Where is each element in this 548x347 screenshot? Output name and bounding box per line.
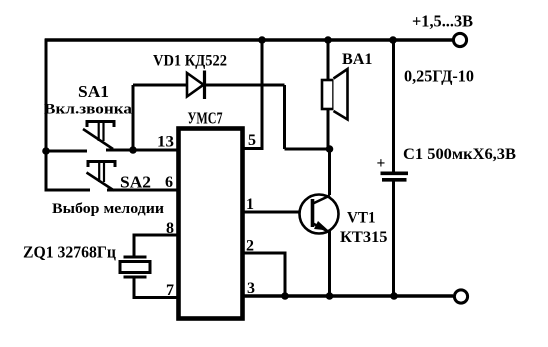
svg-text:13: 13 (157, 134, 174, 151)
svg-text:VD1 КД522: VD1 КД522 (153, 53, 227, 70)
wire SA2 left terminal (46, 189, 90, 192)
wire pin 2 (243, 253, 285, 296)
wire SA1 to pin 13 (106, 149, 178, 152)
switch SA1 (83, 122, 114, 150)
svg-text:7: 7 (166, 282, 174, 299)
svg-text:5: 5 (248, 132, 256, 149)
IC U1 UMS7 body (179, 129, 243, 319)
wire speaker top (327, 40, 330, 80)
svg-text:Вкл.звонка: Вкл.звонка (44, 102, 133, 118)
node left rail / SA1 (42, 147, 50, 155)
speaker BA1 (322, 69, 348, 120)
wire emitter drop (328, 231, 331, 296)
wire VD1 branch down (283, 85, 286, 149)
crystal ZQ1 (120, 257, 150, 277)
svg-text:8: 8 (166, 220, 174, 237)
svg-text:3: 3 (247, 280, 255, 297)
wire left rail (45, 39, 48, 192)
svg-text:ZQ1 32768Гц: ZQ1 32768Гц (23, 243, 116, 262)
wire SA1 left terminal (46, 150, 87, 153)
node SA1 / VD1 anode (129, 146, 137, 154)
svg-text:C1 500мкX6,3В: C1 500мкX6,3В (403, 146, 516, 163)
transistor Q1 VT1 (300, 195, 339, 234)
diode VD1 (187, 71, 205, 100)
wire C1 top (392, 40, 395, 173)
wire speaker bottom (327, 109, 330, 149)
svg-text:VT1: VT1 (347, 210, 376, 227)
node top rail / speaker (324, 36, 332, 44)
wire bottom rail (243, 294, 453, 297)
svg-text:SA2: SA2 (120, 173, 151, 192)
wire VD1 anode riser (132, 85, 135, 150)
node bottom rail / C1 (390, 292, 398, 300)
node bottom rail / pin2 (281, 292, 289, 300)
wire pin 7 (134, 277, 178, 298)
svg-text:SA1: SA1 (78, 82, 109, 101)
svg-text:6: 6 (165, 174, 173, 191)
wire pin 8 (134, 235, 178, 257)
svg-text:0,25ГД-10: 0,25ГД-10 (404, 67, 474, 86)
node bottom rail / emitter (326, 292, 334, 300)
terminal +1,5...3V (453, 33, 466, 46)
wire VD1 anode horizontal (133, 84, 187, 87)
svg-text:КТ315: КТ315 (340, 229, 388, 246)
svg-text:2: 2 (246, 238, 254, 255)
svg-text:+: + (377, 155, 386, 172)
wire VD1 cathode horizontal (204, 84, 285, 87)
wire pin 5 (243, 40, 262, 149)
svg-text:УМС7: УМС7 (188, 109, 223, 128)
switch SA2 (87, 162, 116, 191)
wire top supply rail (45, 38, 453, 41)
node top rail / C1 (389, 36, 397, 44)
wire pin 1 to base (243, 211, 300, 214)
node collector / speaker / diode (326, 145, 334, 153)
wire SA2 to pin 6 (107, 189, 178, 192)
terminal negative (454, 290, 467, 303)
wire collector riser (328, 149, 331, 195)
svg-text:+1,5...3В: +1,5...3В (412, 12, 473, 31)
wire C1 bottom (392, 180, 395, 297)
node top rail / pin5 riser (258, 36, 266, 44)
svg-text:Выбор мелодии: Выбор мелодии (52, 201, 164, 217)
svg-text:1: 1 (246, 196, 254, 213)
wire VD1 branch to collector node (285, 148, 330, 151)
svg-text:BA1: BA1 (342, 51, 373, 68)
capacitor C1 (381, 173, 409, 180)
